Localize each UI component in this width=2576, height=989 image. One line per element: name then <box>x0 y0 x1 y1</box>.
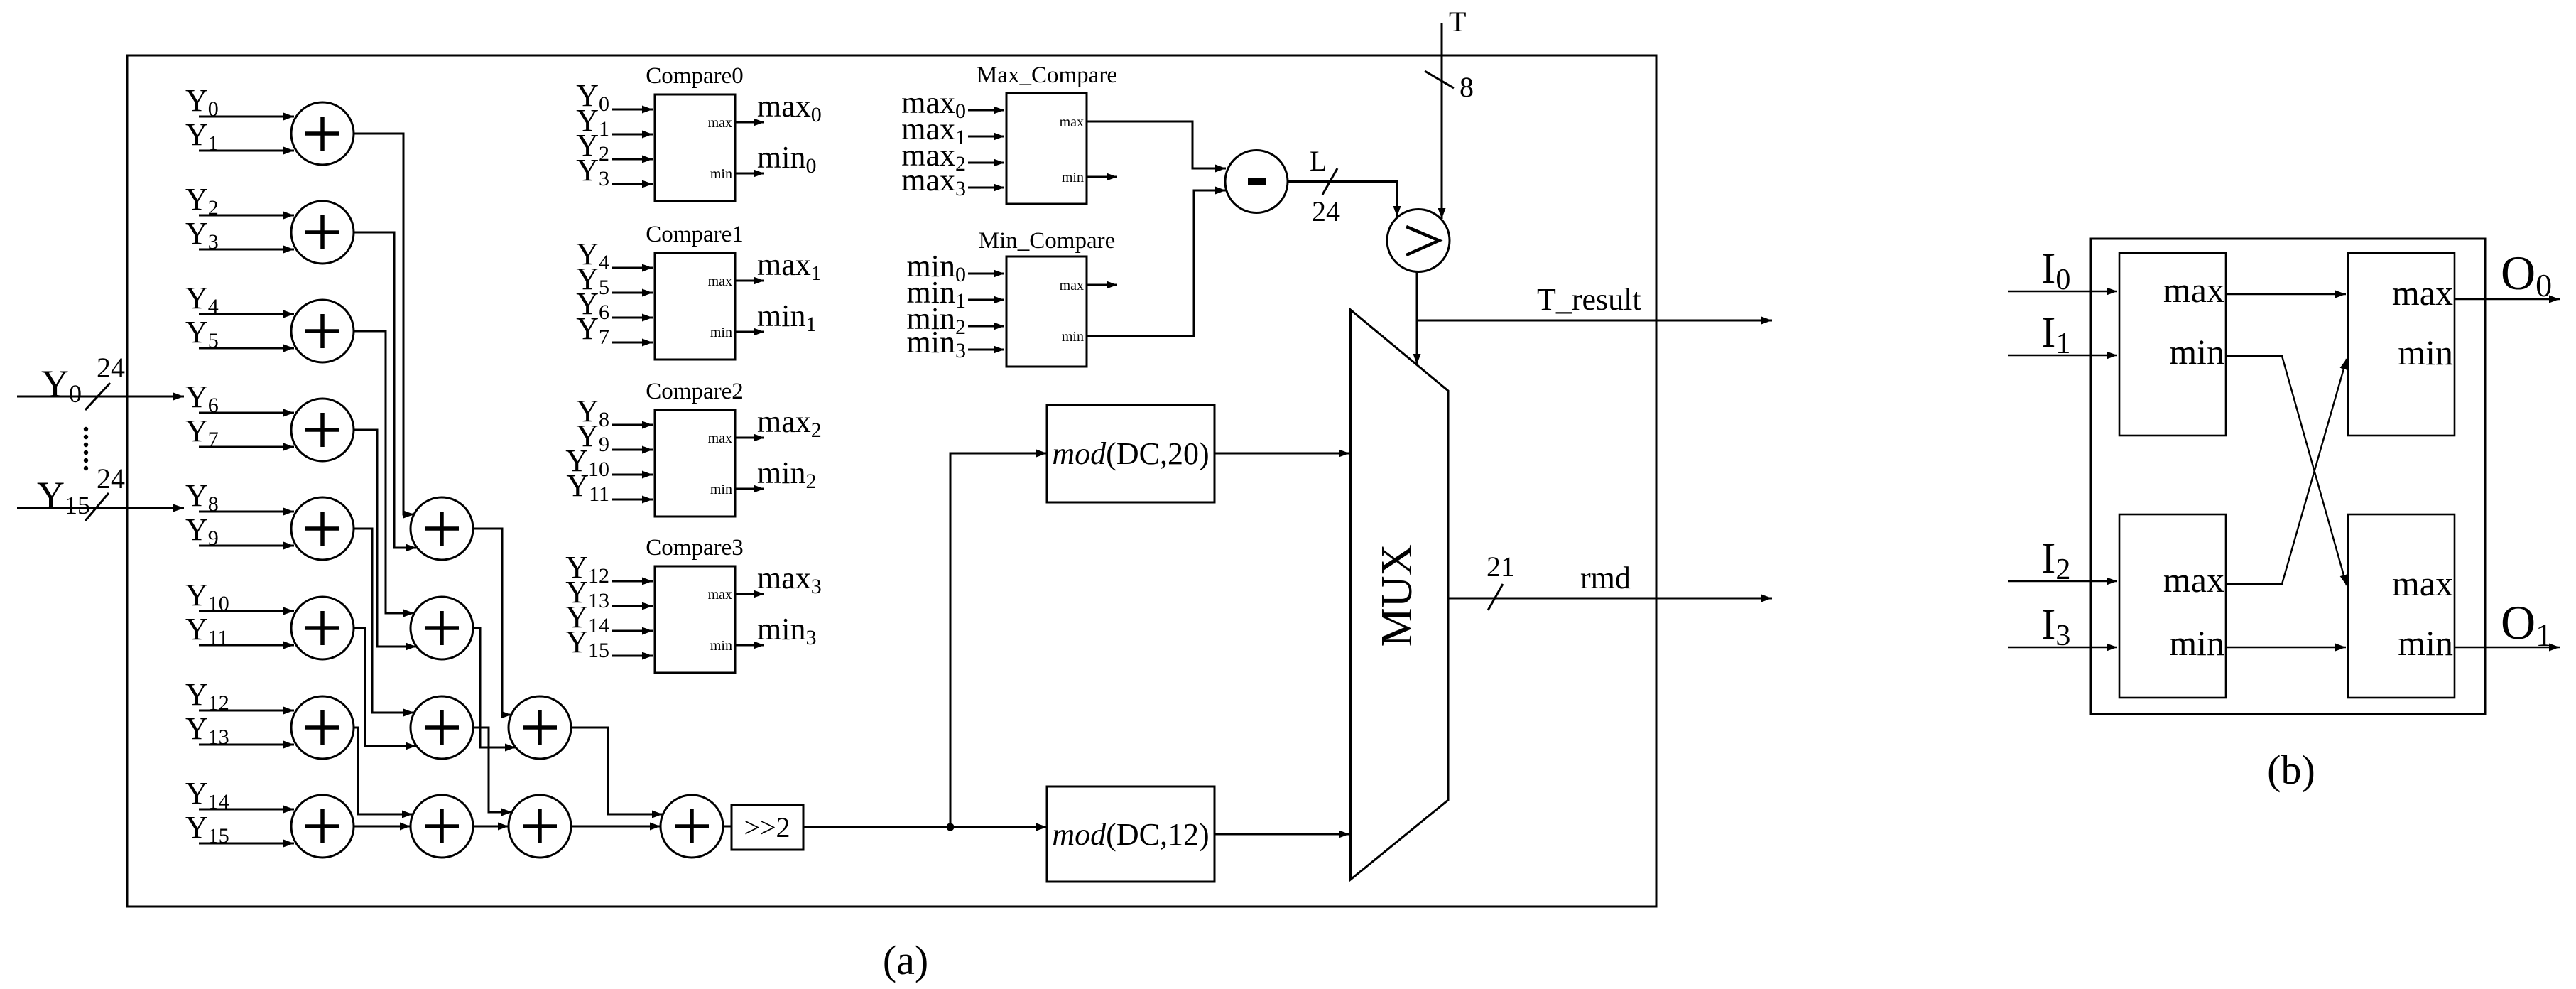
svg-text:Compare1: Compare1 <box>646 222 743 247</box>
input max2 to Max_Compare <box>901 138 1004 175</box>
external input bus Y_0 <box>17 362 184 408</box>
svg-text:rmd: rmd <box>1580 561 1631 595</box>
input Y8 <box>185 478 294 516</box>
output T_result <box>1417 282 1772 320</box>
svg-text:>>2: >>2 <box>744 811 790 843</box>
sorter stage box bottom-left <box>2119 514 2226 698</box>
svg-text:Compare2: Compare2 <box>646 379 743 404</box>
wire TL max to TR max <box>2226 293 2346 295</box>
input Y0 to Compare0 <box>576 78 653 116</box>
wire Min_Compare min to subtracter <box>1087 190 1226 336</box>
input Y15 <box>185 810 294 848</box>
svg-text:21: 21 <box>1487 551 1515 583</box>
svg-text:max: max <box>1060 114 1084 130</box>
bus width slash 8 (T) <box>1425 71 1474 103</box>
output min3 <box>735 612 816 649</box>
input Y4 to Compare1 <box>576 237 653 274</box>
svg-text:min: min <box>710 325 732 340</box>
input Y8 to Compare2 <box>576 394 653 431</box>
output max3 <box>735 561 822 598</box>
wire mod(DC,12) to MUX <box>1214 833 1349 836</box>
input I0 <box>2008 245 2117 296</box>
svg-text:max: max <box>1060 278 1084 293</box>
wire A6 to B3 <box>354 628 416 746</box>
adder A2 (Y2+Y3) <box>291 201 354 264</box>
svg-text:max: max <box>2163 270 2224 310</box>
svg-text:min: min <box>710 166 732 182</box>
subtracter node <box>1225 151 1288 213</box>
sorter stage box top-left <box>2119 253 2226 436</box>
input Y5 to Compare1 <box>576 261 653 299</box>
wire BL max to TR min (cross) <box>2226 359 2347 584</box>
input min1 to Min_Compare <box>907 275 1004 313</box>
input I3 <box>2008 601 2117 652</box>
sorter stage box top-right <box>2348 253 2455 436</box>
adder D1 <box>661 795 723 858</box>
adder B2 <box>411 597 473 659</box>
adder A6 (Y10+Y11) <box>291 597 354 659</box>
multiplexer MUX <box>1351 310 1449 880</box>
wire comparator to MUX select <box>1416 271 1418 364</box>
output min1 <box>735 298 816 336</box>
wire TL min to BR max (cross) <box>2226 356 2347 585</box>
svg-text:min: min <box>2169 332 2224 372</box>
comparator block Min_Compare <box>979 228 1115 367</box>
svg-text:min: min <box>710 482 732 497</box>
sorter stage box bottom-right <box>2348 514 2455 698</box>
svg-text:Max_Compare: Max_Compare <box>977 63 1117 88</box>
input max3 to Max_Compare <box>901 163 1004 200</box>
svg-text:mod(DC,20): mod(DC,20) <box>1052 436 1209 471</box>
bus width slash 21 (rmd) <box>1487 551 1515 610</box>
output rmd <box>1448 561 1772 598</box>
svg-text:L: L <box>1310 145 1327 177</box>
svg-text:T_result: T_result <box>1537 282 1641 317</box>
ellipsis dots <box>84 427 88 470</box>
wire A7 to B4 <box>354 728 413 814</box>
input Y10 <box>185 578 294 615</box>
adder A5 (Y8+Y9) <box>291 497 354 560</box>
input Y1 <box>185 117 294 155</box>
input Y7 to Compare1 <box>576 311 653 349</box>
svg-text:Compare3: Compare3 <box>646 535 743 561</box>
input Y13 to Compare3 <box>565 575 653 612</box>
output O1 <box>2455 595 2560 653</box>
svg-text:24: 24 <box>97 352 125 384</box>
bus width slash 24 (Y_15) <box>85 463 125 521</box>
input Y6 <box>185 379 294 417</box>
input min3 to Min_Compare <box>907 325 1004 362</box>
input Y1 to Compare0 <box>576 103 653 141</box>
input Y7 <box>185 414 294 451</box>
output max1 <box>735 247 822 285</box>
adder C1 <box>509 696 571 759</box>
external input bus Y_15 <box>17 474 184 519</box>
svg-text:mod(DC,12): mod(DC,12) <box>1052 817 1209 852</box>
output max of Min_Compare (unused) <box>1087 284 1117 286</box>
junction node DC <box>947 823 955 831</box>
input Y2 <box>185 182 294 220</box>
wire B2 to C1 <box>473 628 516 747</box>
input Y6 to Compare1 <box>576 286 653 324</box>
svg-text:min: min <box>1062 329 1084 345</box>
wire A2 to B1 <box>354 232 416 548</box>
wire shifter to mod(DC,12) <box>803 826 1047 828</box>
block mod(DC,12) <box>1047 787 1214 882</box>
wire D1 to shifter <box>723 826 731 828</box>
adder C2 <box>509 795 571 858</box>
sorter outer box (b) <box>2091 239 2485 714</box>
input Y14 <box>185 776 294 814</box>
wire subtracter to comparator (L) <box>1288 182 1397 217</box>
svg-text:24: 24 <box>1312 195 1340 227</box>
svg-text:max: max <box>708 274 732 289</box>
wire B4 to C2 <box>473 826 509 828</box>
svg-text:max: max <box>708 587 732 602</box>
wire A1 to B1 <box>354 134 414 514</box>
adder A8 (Y14+Y15) <box>291 795 354 858</box>
input Y11 to Compare2 <box>566 468 653 506</box>
svg-text:max: max <box>708 115 732 131</box>
comparator block Compare0 <box>646 63 743 201</box>
wire C2 to D1 <box>571 826 661 828</box>
svg-text:min: min <box>2398 333 2453 372</box>
comparator block Max_Compare <box>977 63 1117 204</box>
input Y2 to Compare0 <box>576 128 653 166</box>
input Y12 to Compare3 <box>565 550 653 588</box>
input Y0 <box>185 83 294 121</box>
comparator block Compare2 <box>646 379 743 517</box>
adder B4 <box>411 795 473 858</box>
input T <box>1442 6 1466 219</box>
bus width slash 24 (Y_0) <box>85 352 125 410</box>
adder B1 <box>411 497 473 560</box>
wire BL min to BR min <box>2226 647 2346 648</box>
adder A1 (Y0+Y1) <box>291 102 354 165</box>
comparator block Compare3 <box>646 535 743 673</box>
wire Max_Compare max to subtracter <box>1087 121 1226 168</box>
svg-text:T: T <box>1449 6 1466 38</box>
svg-text:max: max <box>2392 563 2453 603</box>
input Y12 <box>185 677 294 715</box>
svg-text:24: 24 <box>97 463 125 494</box>
svg-text:(b): (b) <box>2267 747 2315 793</box>
input Y5 <box>185 315 294 352</box>
svg-text:min: min <box>2398 623 2453 663</box>
wire A5 to B3 <box>354 529 414 713</box>
output min0 <box>735 140 816 178</box>
input Y9 to Compare2 <box>576 418 653 456</box>
adder A7 (Y12+Y13) <box>291 696 354 759</box>
comparator block Compare1 <box>646 222 743 360</box>
svg-text:min: min <box>2169 623 2224 663</box>
output max2 <box>735 404 822 442</box>
wire A8 to B4 <box>354 826 411 828</box>
adder A3 (Y4+Y5) <box>291 300 354 362</box>
svg-text:MUX: MUX <box>1373 544 1421 647</box>
adder A4 (Y6+Y7) <box>291 399 354 461</box>
input I1 <box>2008 309 2117 360</box>
input Y10 to Compare2 <box>565 443 653 481</box>
wire C1 to D1 <box>571 728 663 814</box>
input min0 to Min_Compare <box>907 249 1004 286</box>
input Y4 <box>185 281 294 318</box>
input Y9 <box>185 512 294 550</box>
comparator node > <box>1387 210 1450 272</box>
output min2 <box>735 455 816 493</box>
svg-text:min: min <box>710 638 732 654</box>
wire B3 to C2 <box>473 728 512 812</box>
input Y3 <box>185 216 294 254</box>
output O0 <box>2455 246 2560 303</box>
wire A4 to B2 <box>354 430 416 647</box>
output min of Max_Compare (unused) <box>1087 176 1117 178</box>
block mod(DC,20) <box>1047 405 1214 502</box>
input Y14 to Compare3 <box>565 600 653 637</box>
wire A3 to B2 <box>354 331 414 613</box>
svg-text:(a): (a) <box>883 937 928 983</box>
svg-text:Min_Compare: Min_Compare <box>979 228 1115 254</box>
input Y11 <box>185 612 294 649</box>
bus width slash 24 (L) <box>1312 168 1340 227</box>
svg-text:min: min <box>1062 170 1084 185</box>
svg-text:max: max <box>708 431 732 446</box>
shift block >>2 <box>732 805 803 850</box>
input min2 to Min_Compare <box>907 301 1004 339</box>
svg-text:max: max <box>2163 560 2224 600</box>
output max0 <box>735 89 822 126</box>
input Y15 to Compare3 <box>565 625 653 662</box>
wire B1 to C1 <box>473 529 511 715</box>
input max0 to Max_Compare <box>901 85 1004 123</box>
wire junction to mod(DC,20) <box>950 453 1047 827</box>
svg-text:max: max <box>2392 273 2453 313</box>
input Y3 to Compare0 <box>576 153 653 190</box>
wire mod(DC,20) to MUX <box>1214 453 1349 455</box>
input max1 to Max_Compare <box>901 112 1004 149</box>
svg-text:Compare0: Compare0 <box>646 63 743 89</box>
input Y13 <box>185 711 294 749</box>
module boundary box (a) <box>127 55 1656 907</box>
adder B3 <box>411 696 473 759</box>
input I2 <box>2008 535 2117 586</box>
svg-text:8: 8 <box>1460 71 1474 103</box>
